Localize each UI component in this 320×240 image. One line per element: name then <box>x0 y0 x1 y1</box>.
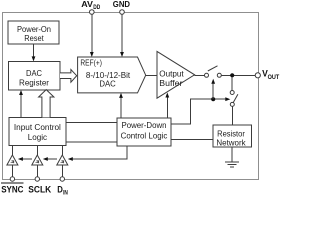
svg-text:IN: IN <box>63 189 68 195</box>
wire ICL to PD lower <box>66 141 117 143</box>
wire buffer DIN to buffer SCLK <box>44 158 57 160</box>
svg-text:Resistor: Resistor <box>217 130 245 139</box>
wire junction to SW2 <box>231 77 233 91</box>
svg-text:DD: DD <box>93 5 101 11</box>
svg-text:DAC: DAC <box>26 69 42 78</box>
pin GND (circle on top edge) <box>120 10 125 15</box>
switch SW1 contact left <box>205 73 209 77</box>
input buffer SCLK (triangle) <box>32 146 43 177</box>
arrowhead into output buffer <box>165 93 169 98</box>
control net from power-down logic to switches <box>171 99 227 124</box>
wire PD bottom to input buffer enables <box>69 146 127 159</box>
wire POR to DAC register <box>33 44 35 58</box>
svg-text:GND: GND <box>113 0 130 9</box>
bus arrow DAC register to DAC (hollow) <box>60 70 77 83</box>
arrowhead AVDD into DAC <box>90 52 94 57</box>
svg-text:DAC: DAC <box>99 80 115 89</box>
input control logic block <box>9 117 66 145</box>
ground below resistor network <box>231 147 233 162</box>
power-down control logic block <box>117 118 171 146</box>
svg-text:SCLK: SCLK <box>28 184 51 195</box>
switch SW2 lever <box>233 94 238 103</box>
wire buffer to switch <box>195 74 205 76</box>
svg-text:Power-Down: Power-Down <box>122 121 167 130</box>
wire AVDD to DAC <box>91 14 93 53</box>
svg-text:Network: Network <box>216 139 246 148</box>
pin VOUT (circle on right edge) <box>255 73 260 78</box>
wire SW2 to resistor network <box>231 106 233 124</box>
arrowhead ICL to DAC register <box>19 90 23 95</box>
arrowhead control to SW2 <box>225 97 230 101</box>
pin SCLK (circle on bottom edge) <box>35 177 39 181</box>
output buffer (triangle) <box>157 51 195 98</box>
svg-text:Logic: Logic <box>28 133 47 142</box>
wire ICL to DAC register <box>20 94 22 117</box>
wire power-down to DAC <box>120 97 122 118</box>
svg-text:Register: Register <box>19 79 49 88</box>
input buffer DIN (triangle) <box>57 146 68 177</box>
resistor network block <box>213 125 251 147</box>
wire PD to resistor network <box>171 139 213 141</box>
svg-text:Buffer: Buffer <box>159 79 182 88</box>
switch SW1 lever <box>208 66 218 71</box>
pin DIN (circle on bottom edge) <box>60 177 64 181</box>
arrowhead GND into DAC <box>120 52 124 57</box>
wire control up to SW1 <box>212 83 214 99</box>
switch SW2 contact bottom <box>230 102 234 106</box>
bus arrow ICL to DAC register (hollow) <box>39 90 54 118</box>
svg-text:AV: AV <box>81 0 93 9</box>
wire ICL to PD upper <box>66 121 117 123</box>
wire GND to DAC <box>121 14 123 53</box>
arrowhead into DAC <box>119 93 123 98</box>
arrowhead into buffer DIN <box>68 157 73 161</box>
switch SW1 contact right <box>217 73 221 77</box>
input buffer SYNC (triangle) <box>7 146 18 177</box>
svg-text:REF(+): REF(+) <box>80 58 102 67</box>
wire power-down to output buffer <box>166 97 168 119</box>
DAC block (pentagon) REF(+) 8-/10-/12-Bit DAC <box>78 57 146 93</box>
wire buffer SCLK to buffer SYNC <box>19 158 31 160</box>
svg-text:D: D <box>57 184 63 195</box>
switch SW2 contact top <box>230 91 234 95</box>
outer boundary box <box>3 13 259 180</box>
junction node control <box>211 97 215 101</box>
wire DAC to output buffer <box>146 74 157 76</box>
pin AVDD (circle on top edge) <box>90 10 95 15</box>
DAC register block <box>9 61 61 90</box>
arrowhead into buffer SCLK <box>43 157 48 161</box>
svg-text:Input Control: Input Control <box>14 123 61 132</box>
arrowhead control to SW1 <box>211 79 215 84</box>
junction node <box>230 73 234 77</box>
svg-text:Reset: Reset <box>24 34 44 43</box>
svg-text:Output: Output <box>159 69 184 78</box>
svg-text:Power-On: Power-On <box>17 25 51 34</box>
svg-text:OUT: OUT <box>268 74 280 81</box>
svg-text:Control Logic: Control Logic <box>121 131 168 140</box>
power-on reset block <box>8 21 59 44</box>
arrowhead into buffer SYNC <box>18 157 23 161</box>
svg-text:SYNC: SYNC <box>1 184 23 195</box>
pin SYNC (circle on bottom edge) <box>10 177 14 181</box>
arrowhead into DAC register <box>32 56 36 61</box>
wire SW1 to VOUT <box>221 74 255 76</box>
